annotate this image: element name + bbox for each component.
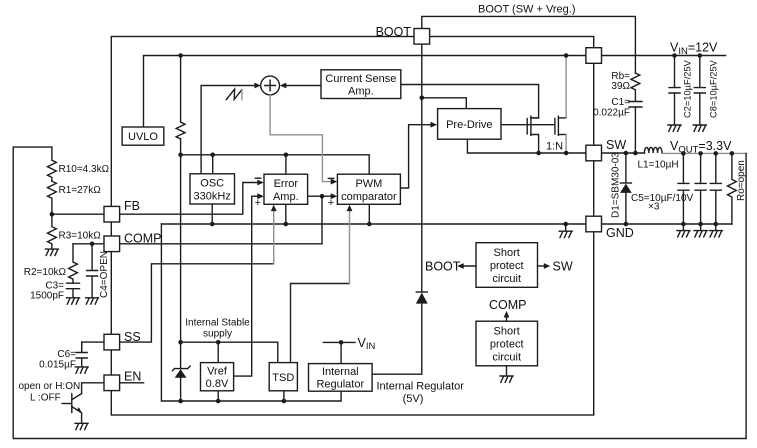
svg-text:R3=10kΩ: R3=10kΩ <box>59 231 102 242</box>
pin SW <box>586 145 602 161</box>
block Vref 0.8V <box>201 363 234 391</box>
svg-text:C8=10µF/25V: C8=10µF/25V <box>709 59 719 118</box>
wire VOUT feedback loop: right edge, bottom, left edge to divider <box>13 147 746 438</box>
svg-text:Internal: Internal <box>322 366 359 378</box>
wire short protect 1 to BOOT <box>460 265 476 267</box>
wire VIN rail (UVLO top, through VIN pin, to bypass caps) <box>144 56 726 128</box>
resistor R2 10k compensation <box>69 244 78 283</box>
wire VOUT line (gray) <box>662 152 746 154</box>
svg-text:Ro=open: Ro=open <box>736 160 747 201</box>
svg-text:+: + <box>255 197 261 209</box>
resistor internal supply dropper <box>180 56 182 402</box>
wire Error Amp top drop <box>285 155 287 174</box>
block Current Sense Amp <box>321 70 401 99</box>
svg-text:Amp.: Amp. <box>348 86 374 98</box>
svg-text:L1=10µH: L1=10µH <box>638 160 679 171</box>
wire OSC top drop <box>212 155 214 174</box>
capacitor C5c <box>710 153 721 224</box>
svg-text:0.022µF: 0.022µF <box>593 108 630 119</box>
svg-text:TSD: TSD <box>272 372 294 384</box>
svg-text:1:N: 1:N <box>546 141 563 153</box>
block Internal Regulator <box>309 364 373 392</box>
svg-text:0.015µF: 0.015µF <box>39 360 76 371</box>
svg-text:UVLO: UVLO <box>128 131 158 143</box>
boot diode D (5V to BOOT) <box>416 291 427 293</box>
wire Vref bottom to rail <box>217 391 219 401</box>
svg-text:R1=27kΩ: R1=27kΩ <box>59 185 102 196</box>
svg-text:OSC: OSC <box>200 178 224 190</box>
junction supply-rail <box>178 399 183 404</box>
wire internal stable supply line to Vref and TSD <box>181 342 278 362</box>
resistor R10 4.3k feedback upper <box>48 147 57 181</box>
svg-text:FB: FB <box>124 199 140 213</box>
svg-text:R2=10kΩ: R2=10kΩ <box>24 267 67 278</box>
wire Vref top drop <box>217 342 219 362</box>
block Pre-Drive <box>438 109 501 140</box>
M2 source to SW (gray) <box>558 134 566 136</box>
svg-text:Error: Error <box>274 178 299 190</box>
capacitor C5a 10uF/10V <box>678 153 689 224</box>
svg-text:C1=: C1= <box>611 97 630 108</box>
svg-text:39Ω: 39Ω <box>611 81 630 92</box>
wire TSD bottom to rail <box>283 391 285 401</box>
capacitor C3 1500pF <box>67 283 80 297</box>
junction OSC bottom <box>211 204 213 224</box>
block UVLO <box>122 127 164 145</box>
resistor Rb 39ohm bootstrap <box>631 73 640 101</box>
summing junction <box>261 76 280 95</box>
svg-text:supply: supply <box>203 329 232 340</box>
ground C5a <box>682 224 684 230</box>
svg-text:Regulator: Regulator <box>316 379 364 391</box>
wire internal ground bus / GND line <box>161 223 732 225</box>
svg-text:circuit: circuit <box>492 273 521 285</box>
svg-text:(5V): (5V) <box>403 393 424 405</box>
svg-text:Internal Regulator: Internal Regulator <box>377 381 465 393</box>
wire EN pin to transistor collector <box>82 383 104 394</box>
wire SS pin to Error Amp soft start <box>120 264 274 342</box>
pin EN <box>104 375 120 391</box>
svg-text:0.8V: 0.8V <box>206 378 229 390</box>
wire short protect 2 to COMP <box>506 314 508 321</box>
ground short protect 2 <box>506 366 508 376</box>
block Short protect circuit 2 <box>476 321 538 366</box>
svg-text:C4=OPEN: C4=OPEN <box>99 251 110 298</box>
svg-text:circuit: circuit <box>492 352 521 364</box>
wire summing node to PWM minus (gray) <box>270 95 335 182</box>
ground C3 <box>67 298 80 304</box>
transistor Q1 NPN enable drive <box>72 394 82 423</box>
svg-text:Vref: Vref <box>207 366 228 378</box>
svg-text:C2=10µF/25V: C2=10µF/25V <box>683 59 693 118</box>
pin GND <box>586 216 602 232</box>
wire Error Amp output to PWM plus <box>308 195 335 197</box>
wire BOOT trace (BOOT pin to Rb top) <box>422 16 636 73</box>
wire VIN stub to Internal Regulator <box>323 342 355 363</box>
junction VIN-supply <box>178 53 183 58</box>
svg-text:330kHz: 330kHz <box>194 191 231 203</box>
svg-text:R10=4.3kΩ: R10=4.3kΩ <box>59 164 110 175</box>
capacitor C1 0.022uF bootstrap <box>629 102 642 154</box>
wire short protect 1 to SW <box>538 265 548 267</box>
svg-text:comparator: comparator <box>341 191 397 203</box>
svg-text:BOOT (SW + Vreg.): BOOT (SW + Vreg.) <box>478 4 576 16</box>
svg-text:SS: SS <box>124 330 141 344</box>
wire BOOT pin down through boot diode to Internal Regulator <box>372 44 422 374</box>
wire Current Sense Amp output to summing node <box>283 85 321 87</box>
ground C8 <box>693 125 706 131</box>
svg-text:C5=10µF/10V: C5=10µF/10V <box>631 193 694 204</box>
capacitor C5b <box>695 153 706 224</box>
svg-text:SW: SW <box>606 138 626 152</box>
wire OSC sawtooth output to summing node <box>201 86 258 174</box>
svg-text:COMP: COMP <box>124 232 162 246</box>
junction Error Amp bottom <box>285 204 287 224</box>
svg-text:COMP: COMP <box>489 298 527 312</box>
IC main block outline U1 <box>111 37 593 416</box>
inductor L1 10uH <box>644 147 662 153</box>
svg-text:BOOT: BOOT <box>425 260 461 274</box>
wire EN stub inside IC <box>120 382 144 384</box>
ground C5c <box>715 224 717 230</box>
zener diode internal clamp <box>173 366 191 371</box>
svg-text:PWM: PWM <box>355 178 382 190</box>
svg-text:Pre-Drive: Pre-Drive <box>446 119 492 131</box>
resistor R3 10k FB to ground <box>48 214 57 249</box>
pin FB <box>104 206 120 222</box>
ground C6 <box>75 367 88 373</box>
svg-text:1500pF: 1500pF <box>30 291 64 302</box>
M1 drain and source connectors <box>531 117 539 119</box>
wire PWM output to Pre-Drive <box>400 125 434 188</box>
ground C5b <box>700 224 702 230</box>
block Short protect circuit 1 <box>476 243 538 288</box>
capacitor C2 10uF/25V <box>669 56 680 125</box>
block OSC 330kHz <box>190 174 235 204</box>
ground Q1 emitter <box>75 423 88 429</box>
pin SS <box>104 334 120 350</box>
svg-text:protect: protect <box>490 260 524 272</box>
svg-text:D1=SBM30-03: D1=SBM30-03 <box>611 152 622 218</box>
svg-text:Amp.: Amp. <box>273 191 299 203</box>
resistor R1 27k feedback lower <box>48 181 57 214</box>
svg-text:C6=: C6= <box>57 349 76 360</box>
svg-text:L :OFF: L :OFF <box>30 393 61 404</box>
wire internal top bus to PWM <box>181 155 370 174</box>
wire TSD output to PWM (thermal shutdown) <box>291 284 350 363</box>
capacitor C8 10uF/25V <box>694 56 705 125</box>
block TSD <box>269 363 297 391</box>
diode D1 SBM30-03 catch diode <box>625 153 627 224</box>
svg-text:SW: SW <box>553 260 573 274</box>
wire Current Sense Amp input from MOSFET drain <box>401 85 539 118</box>
svg-text:Short: Short <box>494 326 520 338</box>
svg-text:open or H:ON: open or H:ON <box>19 381 81 392</box>
svg-text:EN: EN <box>124 370 141 384</box>
label Error Amp minus/plus <box>255 177 260 179</box>
svg-text:Internal Stable: Internal Stable <box>185 318 250 329</box>
ground (internal tie) <box>559 231 572 237</box>
wire Pre-Drive bottom to SW line <box>467 139 586 153</box>
wire internal ground tie with ground symbol <box>565 224 567 231</box>
wire SW pin to inductor <box>602 152 645 154</box>
ground R3 <box>45 249 58 255</box>
svg-text:Current Sense: Current Sense <box>325 73 396 85</box>
resistor Ro=open <box>728 153 737 224</box>
block PWM comparator <box>337 174 400 204</box>
svg-text:Short: Short <box>494 247 520 259</box>
junction PWM bottom <box>368 204 370 224</box>
wire SS pin to C6 <box>82 342 104 352</box>
ground C4 <box>86 298 99 304</box>
svg-text:BOOT: BOOT <box>376 25 412 39</box>
wire FB to Error Amp minus <box>120 183 261 215</box>
pin VIN <box>586 48 602 64</box>
wire FB pin to divider <box>52 213 104 215</box>
pin BOOT <box>414 29 430 45</box>
svg-text:+: + <box>328 197 334 209</box>
wire Pre-Drive gate line to MOSFET gates <box>501 124 555 126</box>
label PWM minus/plus <box>328 177 334 179</box>
M2 drain to VIN (gray) <box>558 117 566 119</box>
svg-text:GND: GND <box>606 226 634 240</box>
transistor Q1 output MOSFET pair: M1 gate/channel <box>526 119 528 134</box>
capacitor C6 0.015uF soft start <box>76 342 87 367</box>
block Error Amp <box>264 174 308 204</box>
ground C2 <box>668 125 681 131</box>
junction BOOT to Pre-Drive supply <box>422 98 467 109</box>
wire COMP pin to Error Amp output <box>120 196 322 244</box>
svg-text:×3: ×3 <box>648 202 660 213</box>
capacitor C4=OPEN <box>87 244 98 298</box>
wire COMP pin to external RC <box>73 243 104 245</box>
svg-text:protect: protect <box>490 339 524 351</box>
pin COMP <box>104 236 120 252</box>
sawtooth waveform symbol <box>226 89 242 100</box>
wire Vref to Error Amp plus <box>234 196 262 376</box>
transistor M2 gate/channel <box>554 119 556 134</box>
